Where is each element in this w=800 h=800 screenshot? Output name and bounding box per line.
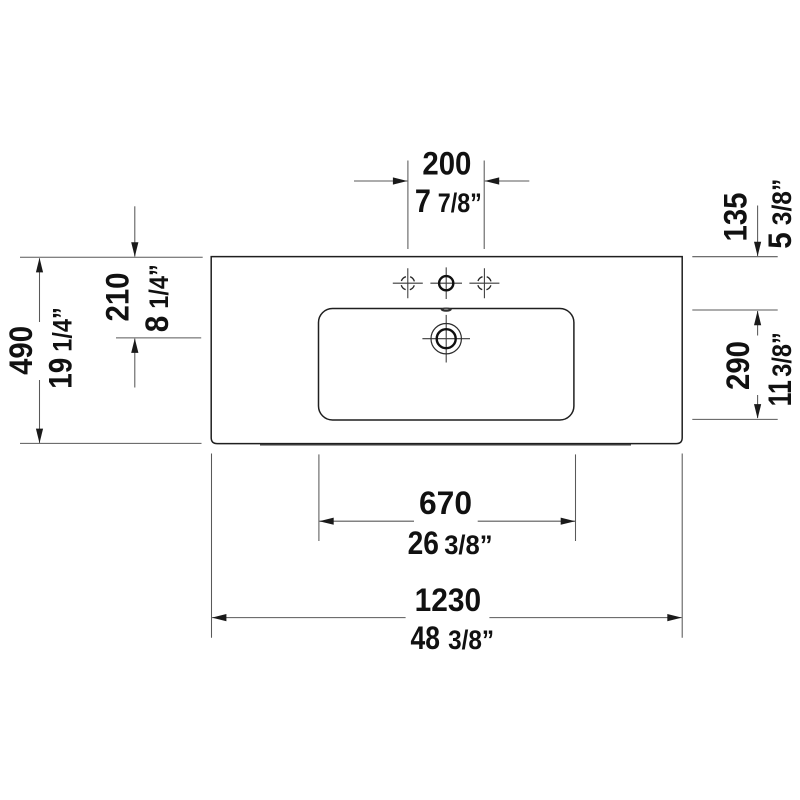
svg-text:1/4”: 1/4” [48,307,78,352]
dim 1230 leader right [489,617,681,619]
dim 670 arrow right [561,518,576,525]
dim 490 extension line bottom [20,442,202,444]
dim 200 extension line right [483,161,485,250]
svg-text:26: 26 [408,525,439,561]
dim 1230 extension line left [211,454,213,638]
washbasin outer outline [211,257,682,444]
dim 490 leader lower [39,380,41,443]
svg-text:7/8”: 7/8” [438,188,482,218]
dim 670 leader right [478,520,575,522]
svg-text:3/8”: 3/8” [444,530,492,560]
dim 1230 arrow right [667,614,682,621]
dim 1230 extension line right [681,454,683,638]
svg-text:290: 290 [720,341,756,390]
dim 210 leader below [134,339,136,388]
faucet hole left dashed circle [401,276,415,290]
dim 210 leader above [134,206,136,256]
svg-text:210: 210 [100,273,136,322]
svg-text:48: 48 [411,620,440,656]
dim 210 arrow up [131,338,138,353]
dim 290 extension line bottom [692,418,777,420]
dim 200 arrow right [485,177,500,184]
dim 490 extension line top [20,256,203,258]
svg-text:8: 8 [139,316,175,333]
svg-text:7: 7 [415,183,431,219]
dim 135/290 arrow up below middle line [757,311,759,336]
svg-text:3/8”: 3/8” [448,625,494,655]
dim 490 inch label [43,307,79,389]
faucet hole right crosshair [469,268,499,298]
svg-text:490: 490 [3,326,39,375]
dim 670 leader left [319,520,414,522]
drain outer circle [431,324,461,354]
drain inner circle [437,329,456,348]
svg-text:135: 135 [718,193,754,242]
svg-text:3/8”: 3/8” [767,332,797,377]
dim 490 leader upper [39,258,41,322]
dim 135 inch label [762,179,798,249]
dim 1230 leader left [212,617,406,619]
dim 670 extension line right [575,454,577,541]
drain crosshair [422,315,470,363]
dim 290 inch label [762,332,798,406]
dim 670 arrow left [319,518,334,525]
svg-text:11: 11 [762,380,798,406]
dim 135 leader above [757,206,759,257]
front lower lip line [260,444,631,446]
dim 210 arrow down [131,242,138,256]
dim 670 extension line left [318,454,320,541]
dim 200 arrow left [393,177,408,184]
svg-text:670: 670 [419,485,472,521]
dim 490 arrow down [36,429,43,444]
dim 200 leader right [485,180,530,182]
dim 135 extension line top [692,256,777,258]
dim 135/290 extension line middle [692,309,777,311]
overflow slot [441,308,452,312]
faucet hole right dashed circle [478,276,492,290]
dim 210 inch label [139,264,175,332]
faucet hole center circle [439,276,453,290]
dim 135 arrow down [754,242,761,257]
svg-text:5: 5 [762,232,798,249]
dim 490 arrow up [36,258,43,273]
dim 290 leader bottom [757,395,759,418]
svg-text:19: 19 [43,358,79,389]
basin bowl outline [319,309,574,421]
svg-text:3/8”: 3/8” [767,179,797,226]
dim 290 arrow down [754,404,761,419]
svg-text:1230: 1230 [415,582,482,618]
svg-text:1/4”: 1/4” [144,264,174,309]
faucet hole left crosshair [393,268,423,298]
faucet hole center crosshair [430,267,462,299]
svg-text:200: 200 [422,146,471,182]
dim 1230 arrow left [212,614,227,621]
dim 210 extension line at drain axis [116,337,201,339]
dim 200 extension line left [407,161,409,250]
dim 200 leader left [354,180,407,182]
